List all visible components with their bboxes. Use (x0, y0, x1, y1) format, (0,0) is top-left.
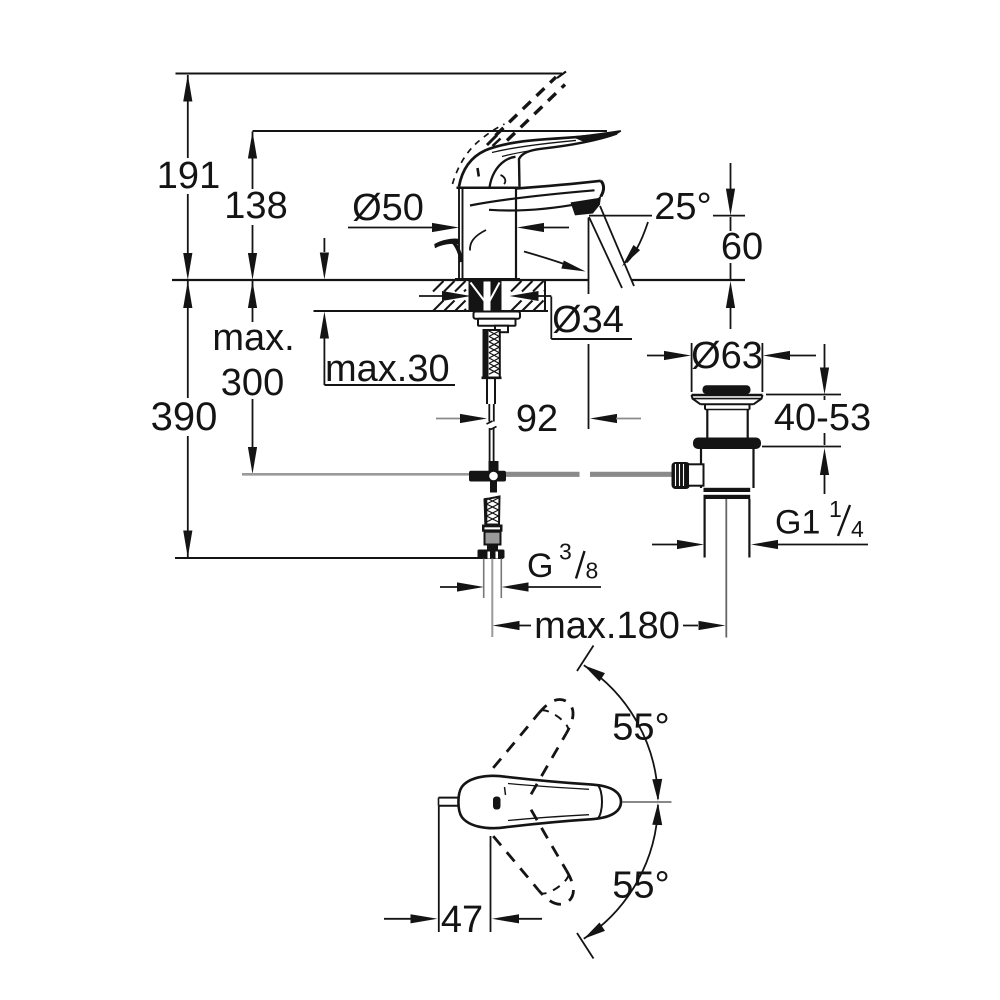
svg-text:max.180: max.180 (534, 605, 680, 647)
svg-text:390: 390 (151, 395, 218, 439)
svg-text:Ø50: Ø50 (352, 187, 424, 229)
svg-text:4: 4 (851, 516, 864, 542)
svg-text:25°: 25° (654, 186, 711, 228)
svg-text:1: 1 (829, 496, 842, 522)
svg-text:55°: 55° (612, 707, 669, 749)
svg-text:Ø63: Ø63 (691, 335, 763, 377)
svg-text:40-53: 40-53 (774, 397, 871, 439)
svg-text:8: 8 (586, 558, 599, 584)
svg-text:138: 138 (224, 185, 287, 227)
svg-text:max.30: max.30 (325, 348, 450, 390)
svg-text:60: 60 (721, 226, 763, 268)
svg-text:191: 191 (157, 155, 220, 197)
svg-text:3: 3 (559, 539, 572, 565)
svg-text:Ø34: Ø34 (552, 299, 624, 341)
svg-text:max.: max. (212, 317, 294, 359)
svg-text:47: 47 (441, 899, 483, 941)
svg-text:55°: 55° (612, 865, 669, 907)
svg-text:G: G (527, 547, 553, 585)
svg-text:300: 300 (221, 362, 284, 404)
svg-text:92: 92 (516, 398, 558, 440)
svg-text:G1: G1 (775, 504, 820, 542)
